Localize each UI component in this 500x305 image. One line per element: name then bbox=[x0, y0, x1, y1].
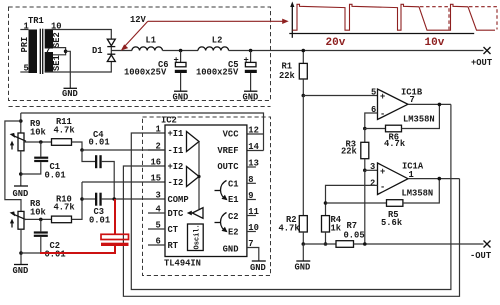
capacitor C5 bbox=[196, 51, 257, 92]
svg-text:20v: 20v bbox=[326, 37, 346, 49]
svg-text:6: 6 bbox=[156, 237, 161, 247]
red annotation line to waveform bbox=[148, 20, 284, 22]
capacitor C2 bbox=[21, 219, 66, 259]
svg-text:4: 4 bbox=[156, 205, 162, 215]
resistor R6 bbox=[365, 104, 440, 149]
svg-text:LM358N: LM358N bbox=[402, 188, 434, 198]
svg-text:1k: 1k bbox=[331, 224, 342, 234]
node R3 leg on rail bbox=[363, 242, 367, 246]
resistor R2 bbox=[279, 215, 308, 244]
svg-text:SE2: SE2 bbox=[52, 32, 62, 48]
svg-text:-I2: -I2 bbox=[168, 178, 184, 188]
primary winding bbox=[29, 30, 38, 74]
svg-text:Oscil.: Oscil. bbox=[193, 224, 201, 249]
potentiometer R8 bbox=[10, 199, 47, 265]
resistor R10 bbox=[52, 194, 76, 222]
wire R11 to pin2 node bbox=[72, 142, 83, 150]
svg-text:1: 1 bbox=[24, 22, 29, 32]
op-amp IC1A bbox=[370, 162, 433, 199]
svg-text:7: 7 bbox=[248, 239, 253, 249]
wire R1 node to IC1B +in bbox=[303, 95, 377, 97]
pin 7 wire to ground bbox=[247, 239, 259, 261]
ground C5 bbox=[243, 91, 259, 102]
wire pin14 bbox=[247, 150, 264, 152]
svg-text:+: + bbox=[380, 92, 385, 102]
svg-text:4.7k: 4.7k bbox=[279, 224, 301, 234]
svg-text:L1: L1 bbox=[146, 35, 157, 45]
svg-text:C1: C1 bbox=[228, 179, 239, 189]
terminal +OUT bbox=[471, 47, 493, 68]
node R5 bbox=[324, 201, 328, 205]
svg-text:E1: E1 bbox=[228, 195, 239, 205]
secondary winding SE2 bbox=[45, 30, 53, 49]
wire to IC2 pin2 bbox=[82, 149, 165, 151]
wiper wire R8 to R10 bbox=[24, 218, 52, 220]
wire tap to ground bbox=[66, 51, 71, 88]
secondary winding SE1 bbox=[45, 52, 53, 72]
svg-text:9: 9 bbox=[248, 191, 253, 201]
svg-text:GND: GND bbox=[243, 93, 259, 103]
pin 10 stub bbox=[247, 223, 259, 233]
internal transistor 2 bbox=[215, 213, 228, 233]
svg-text:5: 5 bbox=[371, 87, 376, 97]
feedback wire IC1A out to IC2 pin16 bbox=[123, 166, 459, 296]
svg-text:16: 16 bbox=[151, 158, 162, 168]
svg-text:-I1: -I1 bbox=[168, 146, 184, 156]
svg-text:22k: 22k bbox=[341, 146, 358, 156]
resistor R5 bbox=[326, 179, 440, 228]
svg-text:GND: GND bbox=[13, 189, 29, 199]
node wiper C2 bbox=[39, 218, 43, 222]
waveform axes bbox=[289, 2, 474, 38]
wire R10 to pin15 node bbox=[72, 182, 83, 219]
pin 11 stub bbox=[247, 207, 259, 217]
svg-text:1: 1 bbox=[156, 125, 161, 135]
svg-text:TR1: TR1 bbox=[28, 16, 44, 26]
right pin labels bbox=[217, 129, 239, 254]
left pin labels bbox=[168, 129, 189, 251]
adjust arrow R8 bbox=[10, 219, 14, 228]
DTC arrow and buffer bbox=[187, 208, 203, 219]
ground R8 bbox=[13, 265, 29, 276]
svg-text:13: 13 bbox=[248, 159, 259, 169]
svg-text:4.7k: 4.7k bbox=[384, 139, 406, 149]
red annotation arrow to D1 node bbox=[121, 19, 289, 51]
node wiper C1 bbox=[39, 140, 43, 144]
svg-text:VREF: VREF bbox=[217, 146, 238, 156]
svg-text:14: 14 bbox=[248, 142, 259, 152]
node IC1A out bbox=[438, 177, 442, 181]
wire L1 to L2 bbox=[163, 50, 199, 52]
svg-text:SE1: SE1 bbox=[52, 55, 62, 71]
svg-text:0.05: 0.05 bbox=[344, 230, 365, 240]
svg-text:CT: CT bbox=[168, 225, 179, 235]
svg-text:GND: GND bbox=[223, 244, 239, 254]
svg-text:IC1B: IC1B bbox=[401, 88, 423, 98]
svg-text:7: 7 bbox=[45, 46, 50, 56]
wire IC1B output bbox=[408, 103, 451, 105]
inductor L2 bbox=[198, 35, 229, 50]
node C6 tap bbox=[179, 49, 183, 53]
node R9 top branch bbox=[19, 119, 23, 123]
svg-text:0.01: 0.01 bbox=[45, 249, 66, 259]
pin 5 stub bbox=[148, 221, 165, 231]
svg-text:15: 15 bbox=[151, 174, 162, 184]
IC2 TL494 bbox=[161, 116, 247, 269]
node R2 bottom bbox=[302, 242, 306, 246]
svg-text:2: 2 bbox=[156, 142, 161, 152]
node IC1B feedback bbox=[363, 127, 367, 131]
resistor R11 bbox=[52, 117, 76, 146]
oscillator box bbox=[188, 224, 204, 251]
wire IC1A -in bbox=[326, 185, 378, 215]
svg-text:10k: 10k bbox=[30, 128, 47, 138]
feedback wire IC1B out to IC2 pin1 bbox=[131, 104, 451, 289]
pin 1 bbox=[20, 29, 28, 31]
svg-text:+: + bbox=[380, 167, 385, 177]
svg-text:+I1: +I1 bbox=[168, 129, 184, 139]
node R4 bottom bbox=[324, 242, 328, 246]
svg-text:0.01: 0.01 bbox=[45, 170, 66, 180]
wire L2 to +OUT bbox=[229, 50, 484, 52]
diode D1 (dual) bbox=[92, 39, 115, 61]
svg-text:4.7k: 4.7k bbox=[54, 125, 76, 135]
transformer TR1 bbox=[20, 16, 62, 74]
capacitor C3 bbox=[82, 193, 165, 226]
node C1 return bbox=[19, 172, 23, 176]
op-amp IC1B bbox=[371, 87, 435, 124]
svg-text:10k: 10k bbox=[30, 208, 47, 218]
wire to IC1A +in bbox=[365, 169, 378, 171]
svg-text:RT: RT bbox=[168, 241, 179, 251]
pin 1 stub bbox=[156, 125, 161, 135]
pin 9 stub bbox=[247, 191, 256, 201]
inductor L1 bbox=[132, 35, 163, 50]
capacitor C4 bbox=[82, 130, 114, 199]
dashed box IC2 section bbox=[143, 117, 271, 276]
wiper wire R9 to R11 bbox=[24, 141, 52, 143]
capacitor C1 bbox=[21, 142, 66, 180]
svg-text:GND: GND bbox=[13, 266, 29, 276]
core bbox=[39, 29, 41, 74]
control rail from VREF bbox=[21, 113, 264, 151]
dashed box power section bbox=[9, 7, 271, 101]
capacitor C6 bbox=[124, 51, 187, 92]
pin 2 stub bbox=[148, 142, 165, 152]
svg-text:GND: GND bbox=[62, 89, 78, 99]
svg-text:+I2: +I2 bbox=[168, 162, 184, 172]
svg-text:1000x25V: 1000x25V bbox=[124, 68, 167, 78]
wire pin10 to D1 top bbox=[45, 30, 112, 40]
svg-text:COMP: COMP bbox=[168, 195, 189, 205]
svg-text:LM358N: LM358N bbox=[403, 115, 435, 125]
internal wire comparators bbox=[198, 142, 200, 210]
svg-text:-OUT: -OUT bbox=[470, 251, 492, 261]
node IC1A +in bbox=[363, 169, 367, 173]
svg-text:12V: 12V bbox=[130, 15, 147, 25]
svg-text:5: 5 bbox=[156, 221, 161, 231]
resistor R7 on -OUT rail bbox=[303, 221, 483, 247]
node COMP / C4 / red bbox=[112, 197, 116, 201]
potentiometer R9 bbox=[10, 119, 47, 186]
svg-text:10v: 10v bbox=[425, 37, 445, 49]
IC2 internal comparator 1 bbox=[187, 132, 200, 152]
svg-text:GND: GND bbox=[295, 263, 311, 273]
pin 3 stub bbox=[156, 191, 161, 201]
svg-text:12: 12 bbox=[248, 126, 259, 136]
svg-text:2: 2 bbox=[370, 178, 375, 188]
svg-text:3: 3 bbox=[370, 162, 375, 172]
node IC1B out bbox=[438, 103, 442, 107]
svg-text:D1: D1 bbox=[92, 46, 103, 56]
adjust arrow R9 bbox=[10, 141, 14, 150]
internal transistor 1 bbox=[215, 181, 228, 201]
resistor R4 bbox=[322, 215, 342, 244]
svg-text:OUTC: OUTC bbox=[217, 162, 239, 172]
wire to IC2 pin15 bbox=[82, 181, 165, 183]
svg-text:3: 3 bbox=[156, 191, 161, 201]
ground IC2 bbox=[250, 261, 266, 273]
svg-text:11: 11 bbox=[248, 207, 259, 217]
red overlay: added capacitor bbox=[40, 199, 129, 253]
svg-text:5: 5 bbox=[24, 64, 29, 74]
waveform dashed (reduced duty) bbox=[420, 7, 449, 30]
ground TR1 bbox=[62, 88, 78, 99]
IC2 internal comparator 2 bbox=[187, 167, 200, 187]
pin 5 bbox=[20, 71, 28, 73]
node C5 tap bbox=[249, 49, 253, 53]
pin 6 stub bbox=[148, 237, 165, 247]
svg-text:C2: C2 bbox=[228, 212, 239, 222]
svg-text:5.6k: 5.6k bbox=[381, 218, 403, 228]
ground R2 bbox=[295, 244, 311, 273]
svg-text:GND: GND bbox=[173, 93, 189, 103]
node pin2 / C4 bbox=[80, 148, 84, 152]
svg-text:IC1A: IC1A bbox=[402, 162, 424, 172]
node C2 return bbox=[19, 251, 23, 255]
svg-text:10: 10 bbox=[248, 223, 259, 233]
pin 4 stub bbox=[148, 205, 165, 215]
waveform trace bbox=[293, 4, 496, 30]
pin 13 stub bbox=[247, 159, 259, 169]
node C3 / pin15 bbox=[80, 197, 84, 201]
svg-text:22k: 22k bbox=[279, 71, 296, 81]
ground R9 bbox=[13, 186, 29, 199]
node R1 bottom bbox=[302, 94, 306, 98]
wire D1 to L1 bbox=[111, 50, 132, 52]
svg-text:E2: E2 bbox=[228, 227, 239, 237]
ground C6 bbox=[173, 91, 189, 102]
resistor R1 bbox=[279, 51, 307, 96]
resistor R3 bbox=[341, 129, 369, 171]
node rail R1 bbox=[302, 49, 306, 53]
wire branch to R8 feed bbox=[5, 121, 21, 211]
terminal -OUT bbox=[470, 241, 492, 262]
svg-text:IC2: IC2 bbox=[161, 116, 177, 126]
svg-text:L2: L2 bbox=[212, 35, 223, 45]
wire SE1 bottom to D1 bottom bbox=[45, 62, 112, 72]
svg-text:VCC: VCC bbox=[223, 129, 240, 139]
pin 8 stub bbox=[247, 175, 256, 185]
wire rail to R9 bbox=[20, 113, 22, 133]
svg-text:DTC: DTC bbox=[168, 209, 185, 219]
wire pin12 bbox=[247, 133, 264, 135]
wire IC1B -in bbox=[365, 113, 378, 129]
svg-text:GND: GND bbox=[250, 263, 266, 273]
wire IC1A output bbox=[408, 178, 460, 180]
wire R1 node down to R2 bbox=[302, 96, 304, 216]
svg-text:TL494IN: TL494IN bbox=[164, 258, 201, 268]
svg-text:4.7k: 4.7k bbox=[54, 203, 76, 213]
pin 15 stub bbox=[151, 174, 162, 184]
wire center tap pin7 bbox=[53, 48, 66, 55]
svg-text:8: 8 bbox=[248, 175, 253, 185]
svg-text:+OUT: +OUT bbox=[471, 58, 493, 68]
dashed separator line bbox=[9, 106, 271, 108]
pin 16 stub bbox=[151, 158, 162, 168]
node center tap bbox=[64, 50, 68, 54]
svg-text:1000x25V: 1000x25V bbox=[196, 68, 239, 78]
svg-text:PRI: PRI bbox=[20, 37, 30, 53]
svg-text:0.01: 0.01 bbox=[89, 215, 110, 225]
svg-text:-: - bbox=[380, 110, 385, 120]
svg-text:0.01: 0.01 bbox=[89, 137, 110, 147]
svg-text:-: - bbox=[380, 182, 385, 192]
wire R3 node to rail bbox=[364, 170, 366, 244]
